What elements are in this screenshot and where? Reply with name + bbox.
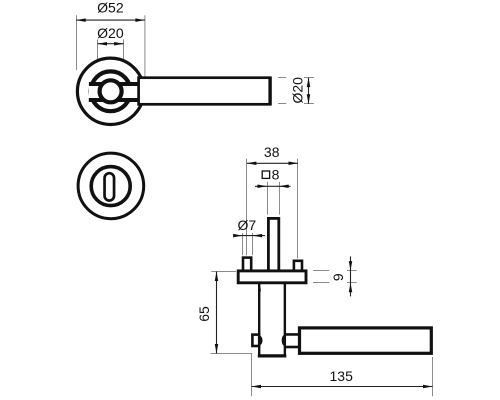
extension line 135 left xyxy=(251,354,253,397)
arrow Ø20 right xyxy=(114,42,124,46)
handle neck bottom edge (side view) xyxy=(258,354,287,357)
keyhole slot xyxy=(105,173,115,200)
extension line 65 top xyxy=(211,271,236,273)
arrow Ø7 left (outside) xyxy=(233,234,243,238)
neck left edge weld jog xyxy=(258,287,261,292)
arrow square8 right (outside) xyxy=(279,185,289,189)
set screw housing left xyxy=(252,335,259,346)
rose plate (side view) xyxy=(238,271,306,283)
arrow bar Ø20 bottom xyxy=(307,94,311,104)
set screw dome left xyxy=(259,337,261,344)
svg-text:Ø52: Ø52 xyxy=(97,0,124,16)
extension line Ø52 right xyxy=(144,15,146,83)
arrow bar Ø20 top xyxy=(307,78,311,88)
connector stub bottom line xyxy=(285,346,300,349)
extension line 135 right xyxy=(432,357,434,396)
pivot dome right xyxy=(283,336,285,345)
svg-text:Ø20: Ø20 xyxy=(290,77,306,104)
handle neck right edge (side view) xyxy=(284,280,286,356)
dimension 135 line xyxy=(252,386,433,388)
extension line 38 left xyxy=(246,159,248,256)
arrow 65 top xyxy=(215,272,219,282)
hub inner circle Ø20 xyxy=(100,80,122,102)
extension line Ø20 right xyxy=(123,39,125,78)
svg-text:38: 38 xyxy=(264,144,280,160)
svg-text:8: 8 xyxy=(272,166,280,182)
extension dashes bar Ø20 top xyxy=(278,77,286,79)
svg-text:Ø20: Ø20 xyxy=(97,25,124,41)
neck band bottom line xyxy=(89,98,141,102)
dimension 9 line xyxy=(350,256,352,296)
extension line 38 right xyxy=(297,159,299,259)
arrow 135 left xyxy=(252,385,262,389)
svg-text:9: 9 xyxy=(330,273,346,281)
extension dashes 9 top xyxy=(313,270,329,272)
rose outer circle Ø52 xyxy=(77,58,143,124)
arrow Ø20 left xyxy=(98,42,108,46)
extension line square8 right xyxy=(279,182,281,215)
dimension 65 line xyxy=(216,272,218,354)
svg-text:65: 65 xyxy=(196,306,212,322)
label square symbol xyxy=(262,171,269,178)
screw post left xyxy=(243,258,251,272)
dimension 38 line xyxy=(247,162,298,164)
neck band top line xyxy=(89,82,141,86)
svg-text:Ø7: Ø7 xyxy=(237,217,256,233)
extension line Ø7 left xyxy=(242,233,244,255)
dimension Ø20 line xyxy=(98,43,124,45)
arrow 38 right xyxy=(289,162,299,166)
arrow 135 right xyxy=(423,385,433,389)
lever bar end cap line xyxy=(268,77,271,106)
dimension Ø52 line xyxy=(76,19,145,21)
neck band fill xyxy=(89,86,141,98)
lever bar (front view) xyxy=(139,78,271,105)
extension line Ø20 left xyxy=(97,39,99,78)
arrow square8 left (outside) xyxy=(258,185,268,189)
extension line Ø7 right xyxy=(252,233,254,255)
dimension square8 line xyxy=(255,185,291,187)
arrow Ø7 right (outside) xyxy=(253,234,263,238)
extension line square8 left xyxy=(267,182,269,215)
arrow 38 left xyxy=(247,162,257,166)
connector stub top line xyxy=(285,333,300,336)
svg-text:135: 135 xyxy=(330,368,354,384)
dimension bar Ø20 vertical line xyxy=(308,78,310,104)
escutcheon inner circle xyxy=(91,167,130,206)
extension dashes 9 bottom xyxy=(313,282,329,284)
escutcheon outer circle xyxy=(78,153,144,219)
dimension Ø7 line xyxy=(235,235,266,237)
arrow 65 bottom xyxy=(215,344,219,354)
extension dashes bar Ø20 bottom xyxy=(278,103,286,105)
arrow Ø52 right xyxy=(135,18,145,22)
handle neck left edge (side view) xyxy=(258,280,260,356)
arrow Ø52 left xyxy=(76,18,86,22)
rose ring circle xyxy=(91,71,131,111)
square spindle xyxy=(268,218,278,274)
arrow 9 bottom (outside) xyxy=(349,283,353,293)
grip bar (side view) xyxy=(300,328,432,353)
screw post right xyxy=(294,261,302,272)
extension line 65 bottom xyxy=(210,353,252,355)
extension line Ø52 left xyxy=(76,15,78,70)
arrow 9 top (outside) xyxy=(349,261,353,271)
